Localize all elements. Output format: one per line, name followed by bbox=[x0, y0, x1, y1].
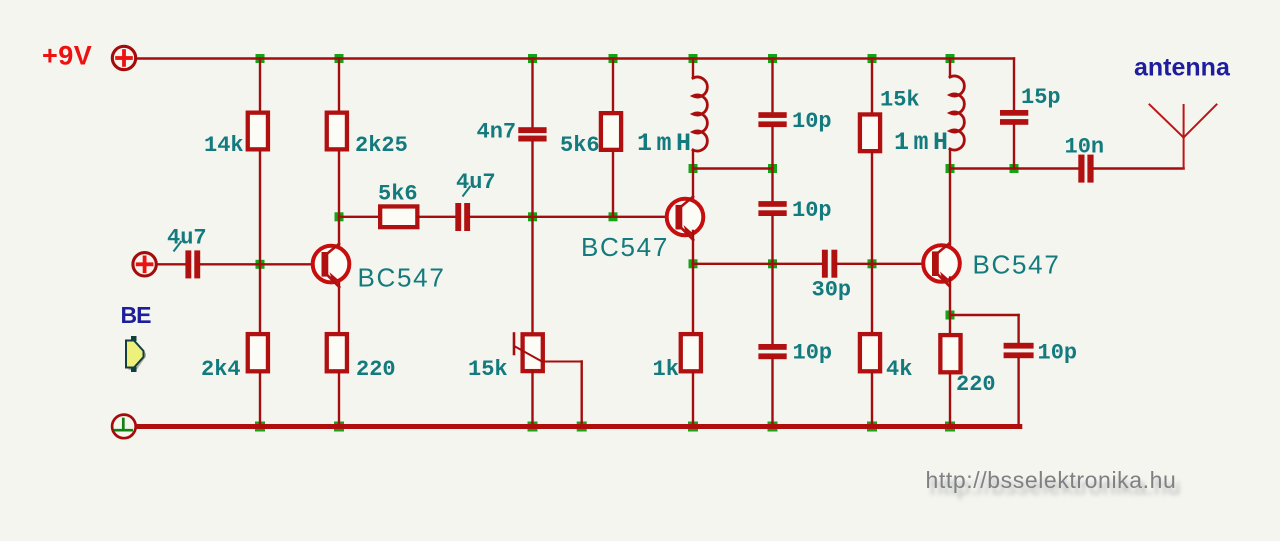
svg-text:4k: 4k bbox=[886, 357, 912, 382]
wire 4u7 to Q1 base bbox=[200, 263, 323, 265]
wire Q2 collector row right bbox=[693, 167, 773, 169]
capacitor 4u7 interstage bbox=[455, 203, 470, 231]
wire 10p#3 to ground rail bbox=[771, 359, 773, 426]
resistor 220 bbox=[327, 334, 347, 371]
capacitor 10p lower bbox=[758, 344, 786, 359]
junction base row x772 bbox=[768, 259, 777, 268]
junction ground rail x772 bbox=[768, 422, 778, 432]
junction row217 x339 bbox=[335, 212, 344, 221]
svg-text:5k6: 5k6 bbox=[378, 182, 418, 207]
junction row217 x613 bbox=[609, 212, 618, 221]
capacitor 4u7 input bbox=[185, 250, 200, 278]
junction top rail x950 bbox=[946, 54, 955, 63]
capacitor 10p output bbox=[1004, 343, 1034, 358]
input terminal BE bbox=[133, 253, 156, 276]
svg-text:BC547: BC547 bbox=[581, 232, 669, 262]
wire C2 rail to 2k25 bbox=[338, 59, 340, 111]
svg-text:15k: 15k bbox=[880, 88, 920, 113]
junction input row x260 bbox=[256, 260, 265, 269]
svg-text:antenna: antenna bbox=[1134, 54, 1231, 82]
wire C6 rail to 10p#1 bbox=[771, 59, 773, 113]
svg-text:220: 220 bbox=[956, 372, 996, 397]
svg-text:http://bsselektronika.hu: http://bsselektronika.hu bbox=[926, 467, 1177, 493]
wire C7 rail to 15k bbox=[871, 59, 873, 113]
resistor 15k top bbox=[860, 114, 880, 151]
BE arrow symbol bbox=[126, 336, 146, 372]
wire Q3 emitter down to junction bbox=[949, 278, 951, 334]
resistor 5k6 vertical bbox=[601, 113, 621, 150]
junction base row x872 bbox=[868, 259, 877, 268]
inductor L2 1mH bbox=[950, 76, 964, 150]
svg-text:+9V: +9V bbox=[42, 41, 92, 71]
wire Q2 emitter row right to 30p bbox=[693, 263, 822, 265]
label 4u7 input bbox=[167, 226, 207, 252]
capacitor 4n7 bbox=[518, 127, 546, 141]
wire C4 rail to 5k6 vertical bbox=[612, 59, 614, 112]
wire 15p bottom to antenna feed row bbox=[1013, 125, 1015, 169]
junction ground rail x693 bbox=[688, 422, 698, 432]
junction row168 x950 bbox=[946, 164, 955, 173]
resistor 2k4 bbox=[248, 334, 268, 371]
junction top rail x872 bbox=[868, 54, 877, 63]
svg-text:1mH: 1mH bbox=[894, 128, 953, 157]
junction top rail x339 bbox=[335, 54, 344, 63]
junction row168 x772 bbox=[768, 164, 777, 173]
trimmer resistor 15k bbox=[514, 334, 582, 427]
svg-text:1k: 1k bbox=[653, 357, 679, 382]
capacitor 10p mid bbox=[758, 201, 786, 216]
wire down to 10p#4 bbox=[1017, 315, 1019, 343]
svg-text:10p: 10p bbox=[792, 198, 832, 223]
junction top rail x693 bbox=[689, 54, 698, 63]
junction ground rail x581 bbox=[577, 422, 587, 432]
transistor Q1 BC547 bbox=[313, 244, 350, 287]
junction row217 x532 bbox=[528, 212, 537, 221]
resistor 2k25 bbox=[327, 113, 347, 150]
svg-text:BC547: BC547 bbox=[358, 263, 446, 293]
svg-text:4u7: 4u7 bbox=[167, 226, 207, 251]
junction row168 x693 bbox=[689, 164, 698, 173]
wire 220 to ground rail bbox=[338, 374, 340, 427]
wire emitter junction right bbox=[950, 314, 1019, 316]
wire 220#2 to ground rail bbox=[949, 375, 951, 427]
wire top rail bbox=[137, 57, 1014, 59]
transistor Q2 BC547 bbox=[667, 197, 704, 240]
junction top rail x532 bbox=[528, 54, 537, 63]
capacitor 10n bbox=[1078, 155, 1093, 183]
wire 10p#1 to row168 bbox=[771, 127, 773, 201]
wire Q2 emitter down bbox=[692, 231, 694, 332]
wire C8 rail to coil L2 bbox=[949, 59, 951, 78]
wire row217 junction to 5k6h bbox=[339, 216, 380, 218]
resistor 5k6 horizontal bbox=[380, 206, 417, 227]
wire C5 rail to coil L1 bbox=[692, 59, 694, 79]
transistor Q3 BC547 bbox=[923, 243, 960, 286]
wire C1 rail to 14k bbox=[259, 59, 261, 111]
svg-text:5k6: 5k6 bbox=[560, 133, 600, 158]
junction base row x693 bbox=[689, 259, 698, 268]
svg-text:1mH: 1mH bbox=[637, 129, 696, 158]
svg-text:30p: 30p bbox=[812, 278, 852, 303]
junction top rail x260 bbox=[256, 54, 265, 63]
resistor 4k bbox=[860, 334, 880, 371]
junction ground rail x260 bbox=[255, 422, 265, 432]
junction top rail x772 bbox=[768, 54, 777, 63]
svg-text:10p: 10p bbox=[1038, 341, 1078, 366]
wire Q1 emitter down to 220 bbox=[338, 278, 340, 332]
svg-text:10n: 10n bbox=[1065, 134, 1105, 159]
ground terminal bbox=[112, 415, 136, 439]
wire 1k to ground rail bbox=[692, 374, 694, 427]
svg-text:14k: 14k bbox=[204, 133, 244, 158]
wire 4k to ground rail bbox=[871, 374, 873, 427]
wire 2k25 down to Q1 collector bbox=[338, 152, 340, 251]
svg-text:15p: 15p bbox=[1021, 85, 1061, 110]
junction ground rail x532 bbox=[528, 422, 538, 432]
wire top-right corner down to 15p bbox=[1013, 59, 1015, 111]
label 4u7 interstage bbox=[456, 170, 496, 197]
wire 5k6h to 4u7 #2 bbox=[417, 216, 455, 218]
svg-text:10p: 10p bbox=[793, 341, 833, 366]
wire 4u7#2 to Q2 base bbox=[470, 216, 677, 218]
wire 15k to Q3 base row bbox=[871, 153, 873, 332]
wire antenna feed row bbox=[950, 167, 1078, 169]
wire 5k6v down to row217 bbox=[612, 152, 614, 217]
+9V terminal bbox=[112, 46, 135, 69]
wire 10n to antenna bbox=[1094, 167, 1184, 169]
svg-text:BC547: BC547 bbox=[973, 249, 1061, 279]
inductor L1 1mH bbox=[693, 77, 707, 151]
wire 14k down through input row to 2k4 bbox=[259, 152, 261, 333]
capacitor 30p bbox=[822, 250, 837, 278]
junction ground rail x950 bbox=[945, 422, 955, 432]
wire 2k4 to ground rail bbox=[259, 374, 261, 427]
svg-text:2k25: 2k25 bbox=[355, 133, 408, 158]
svg-text:2k4: 2k4 bbox=[201, 357, 241, 382]
resistor 14k bbox=[248, 113, 268, 150]
junction ground rail x339 bbox=[334, 422, 344, 432]
wire C3 rail to 4n7 bbox=[531, 59, 533, 128]
svg-text:4n7: 4n7 bbox=[477, 120, 517, 145]
svg-text:BE: BE bbox=[121, 302, 152, 328]
capacitor 15p bbox=[1000, 110, 1028, 125]
resistor 1k bbox=[681, 334, 701, 371]
wire L1 to Q2 collector junction bbox=[692, 150, 694, 204]
svg-text:10p: 10p bbox=[792, 109, 832, 134]
wire 30p to Q3 base bbox=[837, 263, 933, 265]
antenna symbol bbox=[1150, 105, 1217, 169]
svg-text:15k: 15k bbox=[468, 357, 508, 382]
wire 4n7 down through row217 to trimmer bbox=[531, 142, 533, 333]
junction emitter link x950 bbox=[946, 311, 955, 320]
wire trimmer to ground rail bbox=[531, 371, 533, 427]
junction row168 x1014 bbox=[1010, 164, 1019, 173]
capacitor 10p top bbox=[758, 112, 786, 127]
junction ground rail x872 bbox=[867, 422, 877, 432]
wire input terminal to 4u7 bbox=[157, 263, 185, 265]
junction top rail x613 bbox=[609, 54, 618, 63]
ground rail bbox=[138, 424, 1020, 429]
resistor 220 output bbox=[940, 335, 960, 372]
wire 10p#2 to Q3 base row bbox=[771, 216, 773, 344]
wire 10p#4 to rail end bbox=[1017, 358, 1019, 426]
svg-text:220: 220 bbox=[356, 357, 396, 382]
watermark url bbox=[926, 467, 1181, 500]
svg-text:4u7: 4u7 bbox=[456, 170, 496, 195]
wire L2 to antenna row junction bbox=[949, 149, 951, 250]
